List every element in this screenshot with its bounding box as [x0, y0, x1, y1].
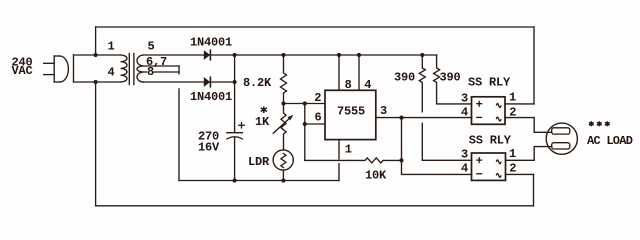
svg-text:VAC: VAC [12, 64, 33, 78]
svg-text:3: 3 [461, 91, 468, 105]
svg-text:LDR: LDR [248, 155, 270, 169]
svg-text:2: 2 [509, 161, 516, 175]
svg-text:8.2K: 8.2K [243, 76, 272, 90]
svg-text:16V: 16V [198, 141, 220, 155]
svg-text:6: 6 [315, 111, 322, 125]
svg-text:8: 8 [345, 78, 352, 92]
svg-text:2: 2 [314, 91, 321, 105]
svg-text:1K: 1K [255, 115, 270, 129]
svg-text:1N4001: 1N4001 [190, 90, 232, 104]
svg-text:3: 3 [461, 148, 468, 162]
svg-text:7555: 7555 [337, 105, 365, 119]
svg-text:3: 3 [380, 104, 387, 118]
svg-text:AC LOAD: AC LOAD [587, 134, 633, 148]
svg-text:4: 4 [108, 66, 115, 80]
svg-text:2: 2 [509, 105, 516, 119]
svg-text:10K: 10K [365, 169, 387, 183]
svg-text:1N4001: 1N4001 [190, 36, 232, 50]
svg-text:4: 4 [461, 161, 468, 175]
svg-text:SS RLY: SS RLY [469, 134, 512, 148]
svg-text:4: 4 [364, 78, 371, 92]
svg-text:1: 1 [509, 147, 516, 161]
svg-text:390: 390 [440, 71, 461, 85]
svg-text:4: 4 [461, 105, 468, 119]
svg-text:1: 1 [509, 90, 516, 104]
svg-text:1: 1 [108, 40, 115, 54]
svg-text:390: 390 [394, 71, 415, 85]
svg-text:SS RLY: SS RLY [468, 76, 511, 90]
svg-text:1: 1 [345, 143, 352, 157]
svg-text:5: 5 [148, 39, 155, 53]
svg-text:8: 8 [147, 65, 154, 79]
